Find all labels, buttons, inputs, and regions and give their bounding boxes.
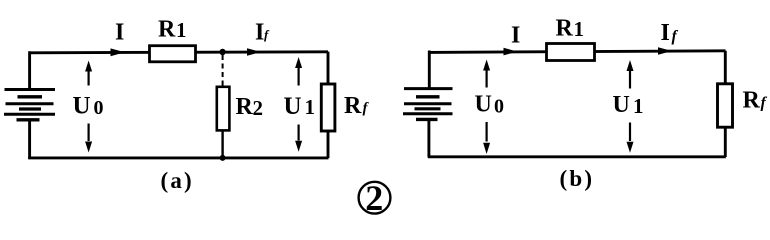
resistor Rf (b): [718, 84, 733, 127]
resistor R2: [217, 87, 230, 131]
wire left upper (a): [28, 51, 31, 89]
svg-text:R: R: [743, 88, 761, 114]
voltage arrow U0 down (a): [85, 124, 92, 153]
label U0 (a): [73, 93, 104, 120]
svg-text:U: U: [475, 92, 492, 118]
current arrow If (a): [247, 48, 261, 56]
svg-text:U: U: [613, 92, 630, 118]
node junction top (a): [219, 49, 225, 55]
svg-text:(a): (a): [161, 168, 194, 193]
svg-text:0: 0: [94, 97, 104, 119]
svg-text:0: 0: [494, 96, 504, 118]
label (a): [161, 168, 194, 193]
wire bottom (a): [28, 156, 328, 159]
svg-text:I: I: [661, 20, 670, 46]
voltage arrow U1 down (a): [295, 125, 302, 152]
svg-text:f: f: [264, 27, 270, 42]
label I (a): [115, 20, 124, 46]
voltage arrow U0 down (b): [483, 122, 490, 154]
label If (b): [661, 20, 679, 46]
svg-text:U: U: [73, 93, 91, 120]
svg-text:R: R: [344, 93, 362, 119]
voltage arrow U0 up (a): [85, 61, 92, 86]
svg-text:I: I: [511, 22, 520, 48]
svg-text:(b): (b): [560, 166, 595, 191]
svg-text:2: 2: [253, 96, 264, 120]
label R1 (a): [158, 17, 187, 43]
wire left upper (b): [428, 51, 431, 89]
label R1 (b): [556, 16, 585, 42]
voltage arrow U0 up (b): [483, 60, 490, 88]
label U1 (b): [613, 92, 644, 118]
label Rf (b): [743, 88, 768, 114]
wire bottom (b): [428, 155, 726, 158]
svg-text:1: 1: [176, 18, 187, 42]
resistor R1 (a): [150, 46, 196, 62]
svg-text:f: f: [672, 28, 679, 45]
battery B2: [403, 89, 453, 120]
svg-text:f: f: [363, 101, 370, 117]
svg-text:1: 1: [633, 94, 644, 118]
battery B1: [4, 90, 55, 120]
wire top (a): [29, 52, 328, 53]
svg-text:R: R: [556, 16, 574, 42]
label U1 (a): [284, 93, 316, 120]
svg-text:f: f: [761, 95, 768, 112]
label U0 (b): [475, 92, 505, 118]
svg-text:I: I: [255, 20, 264, 46]
svg-text:U: U: [284, 93, 302, 120]
resistor R1 (b): [547, 44, 595, 61]
resistor Rf (a): [321, 84, 335, 131]
current arrow I (a): [111, 48, 125, 56]
voltage arrow U1 up (a): [295, 57, 302, 86]
svg-text:1: 1: [574, 17, 585, 41]
wire top (b): [429, 51, 726, 53]
wire right (a): [327, 52, 330, 158]
wire R2 to bottom (a): [221, 130, 223, 158]
wire right (b): [724, 51, 727, 157]
svg-text:1: 1: [305, 95, 316, 119]
figure number 2 circled: [359, 178, 391, 218]
svg-text:R: R: [158, 17, 176, 43]
voltage arrow U1 up (b): [627, 60, 634, 89]
label I (b): [511, 22, 520, 48]
wire left lower (b): [427, 121, 430, 158]
label R2: [236, 94, 264, 120]
svg-text:2: 2: [365, 178, 383, 218]
svg-text:I: I: [115, 20, 124, 46]
wire left lower (a): [28, 121, 31, 159]
label If (a): [255, 20, 270, 46]
svg-text:R: R: [236, 94, 254, 120]
current arrow I (b): [504, 48, 518, 56]
voltage arrow U1 down (b): [627, 123, 634, 153]
node junction bottom (a): [220, 155, 226, 161]
label Rf (a): [344, 93, 370, 119]
wire junction to R2 (a): [222, 55, 224, 87]
label (b): [560, 166, 595, 191]
current arrow If (b): [658, 47, 672, 55]
